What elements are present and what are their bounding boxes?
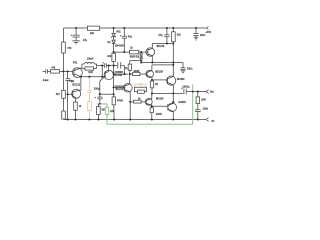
svg-text:10k: 10k — [107, 55, 112, 58]
capacitor C9 (output) — [184, 89, 206, 95]
resistor R19 (TR7 base) — [150, 108, 153, 113]
transistor TR4 (pre-driver upper) — [146, 70, 153, 77]
svg-text:+: + — [120, 34, 122, 37]
svg-text:2k2: 2k2 — [177, 34, 182, 37]
wire TR1 emitter to TR6 base — [81, 76, 105, 78]
zener D1 — [112, 33, 115, 36]
svg-text:+30V: +30V — [205, 31, 211, 34]
wire TR7 base row — [152, 105, 168, 107]
resistor R7 — [172, 27, 174, 29]
svg-text:MJ480: MJ480 — [177, 78, 185, 81]
svg-text:560R: 560R — [130, 56, 136, 59]
resistor R18 (zobel) — [197, 92, 199, 110]
ground (rail decoupling) — [194, 37, 199, 40]
transistor TR7 (output lower) — [168, 103, 177, 112]
wire emitter degeneration (tan) — [88, 76, 90, 78]
svg-text:+: + — [102, 61, 104, 64]
transistor TR5 (output upper) — [167, 76, 176, 85]
node +V terminal — [206, 27, 208, 30]
transistor TR8 (VAS) — [124, 84, 133, 93]
svg-text:BC212: BC212 — [73, 84, 81, 87]
wire VAS node row — [114, 73, 129, 75]
node bias row left junction — [113, 51, 115, 53]
svg-text:10R: 10R — [201, 98, 206, 101]
node input junction — [62, 70, 64, 72]
capacitor C7 (bootstrap) — [166, 27, 168, 29]
wire bias bottom row — [141, 63, 183, 68]
capacitor C13 (zobel) — [195, 110, 201, 120]
resistor R20 (TR5 base) — [134, 100, 142, 103]
svg-text:Out: Out — [210, 90, 214, 93]
resistor R11 (emitter) — [150, 81, 153, 88]
resistor R3 (top rail series) — [87, 26, 99, 30]
wire feedback row — [100, 93, 114, 95]
svg-text:2200µ: 2200µ — [182, 86, 190, 89]
resistor R12 (TR2 emitter) — [74, 102, 78, 110]
ground (top-left) — [72, 41, 80, 44]
svg-text:10R: 10R — [88, 71, 93, 74]
wire zener branch — [113, 27, 115, 29]
capacitor C4 — [105, 63, 118, 68]
transistor TR1 — [73, 68, 83, 78]
svg-text:BD139: BD139 — [157, 45, 165, 48]
resistor R14 (divider lower) — [97, 107, 101, 115]
wire output row — [152, 93, 183, 95]
resistor R15 (feedback, green) — [105, 108, 108, 115]
svg-text:D3: D3 — [136, 56, 140, 59]
svg-text:100n: 100n — [200, 34, 206, 37]
svg-text:47k: 47k — [67, 47, 72, 50]
svg-text:BC212: BC212 — [116, 88, 124, 91]
svg-text:1k: 1k — [79, 105, 82, 108]
svg-text:TR1: TR1 — [73, 61, 78, 64]
wire feedback node (green) — [97, 103, 107, 105]
wire x102 link — [101, 66, 103, 77]
svg-text:Input: Input — [43, 79, 49, 82]
transistor TR6 (VAS input) — [104, 70, 113, 79]
node x102 base junction — [101, 76, 103, 78]
resistor R5 (parallel with L1) — [85, 67, 94, 70]
svg-text:470R: 470R — [117, 100, 123, 103]
resistor R10 — [112, 53, 116, 61]
wire TR6b base row — [152, 79, 168, 81]
inductor L1 — [82, 64, 97, 69]
capacitor C8 (zobel hf) — [180, 68, 185, 71]
svg-text:1k: 1k — [130, 47, 133, 50]
resistor R8 (VAS load) — [128, 64, 131, 70]
wire VAS top — [97, 65, 105, 67]
node output terminal — [206, 90, 209, 94]
transistor TR2 — [72, 89, 81, 98]
wire input lead — [43, 70, 46, 72]
node bias row C6 junction — [123, 51, 125, 53]
svg-text:100R: 100R — [156, 113, 162, 116]
resistor R2b — [62, 111, 66, 119]
svg-text:BD140: BD140 — [156, 97, 164, 100]
capacitor C5 — [118, 62, 125, 74]
wire TR3 collector row — [152, 43, 173, 45]
svg-text:BD139: BD139 — [155, 70, 163, 73]
capacitor C10 (tan) — [87, 91, 92, 102]
diode D2 — [112, 40, 115, 43]
capacitor C2 (input RF) — [67, 70, 69, 72]
svg-text:1R: 1R — [155, 83, 158, 86]
wire divider vertical — [63, 28, 65, 120]
wire input to TR1 base — [60, 70, 74, 72]
svg-text:10mH: 10mH — [87, 58, 94, 61]
resistor R4 input series — [51, 70, 60, 73]
wire feedback loop (green) — [107, 85, 193, 125]
svg-text:100R: 100R — [133, 70, 139, 73]
capacitor C6 (bias filter) — [123, 27, 125, 29]
resistor R1 — [62, 42, 66, 53]
svg-text:100n: 100n — [203, 108, 209, 111]
capacitor C14 (rail decoupling) — [195, 27, 197, 29]
capacitor C11 (feedback) — [97, 94, 102, 104]
svg-text:TR2: TR2 — [69, 80, 74, 83]
wire +V rail — [64, 27, 206, 29]
svg-text:+: + — [94, 96, 96, 99]
svg-text:4k7: 4k7 — [56, 93, 61, 96]
node TR1 emitter junction — [80, 76, 82, 78]
ground (zobel) — [181, 71, 185, 74]
capacitor C12 (lag, tan) + resistor network — [135, 83, 146, 87]
resistor R17 — [138, 90, 145, 93]
resistor R2 — [62, 90, 66, 98]
svg-text:47k: 47k — [51, 67, 56, 70]
transistor TR3 driver — [146, 48, 155, 57]
wire x113 vertical — [113, 52, 115, 94]
node VAS collector junction — [108, 65, 110, 67]
svg-text:47µ: 47µ — [83, 39, 88, 42]
svg-text:1N4148: 1N4148 — [115, 44, 124, 47]
svg-text:100µ: 100µ — [94, 87, 100, 90]
svg-text:47µ: 47µ — [128, 35, 133, 38]
resistor R13 (tan) — [88, 102, 92, 111]
capacitor C3 (top-left decoupling) — [75, 27, 77, 29]
wire TR6 collector feed — [172, 44, 174, 77]
svg-text:47µ: 47µ — [158, 34, 163, 37]
ground rail — [64, 119, 206, 121]
diode D4 — [140, 58, 143, 61]
svg-text:9V1: 9V1 — [116, 30, 121, 33]
transistor TR9 (pre-driver lower) — [145, 99, 152, 106]
svg-text:100n: 100n — [187, 68, 193, 71]
node R10 bottom junction — [113, 65, 115, 67]
resistor R16 (x114) — [112, 97, 115, 105]
svg-text:MJ491: MJ491 — [178, 101, 186, 104]
wire TR4 collector row — [152, 64, 173, 66]
svg-text:0V: 0V — [211, 120, 214, 123]
node ground rail junctions — [67, 118, 69, 120]
resistor R6 (bias row) — [129, 50, 138, 54]
diode D3 — [140, 52, 142, 54]
capacitor C1 input — [46, 69, 51, 73]
wire bias row — [114, 51, 130, 53]
resistor R9 (to TR4 base) — [133, 72, 140, 75]
svg-text:22k: 22k — [90, 32, 95, 35]
svg-text:+: + — [71, 34, 73, 37]
svg-text:D2: D2 — [107, 41, 111, 44]
